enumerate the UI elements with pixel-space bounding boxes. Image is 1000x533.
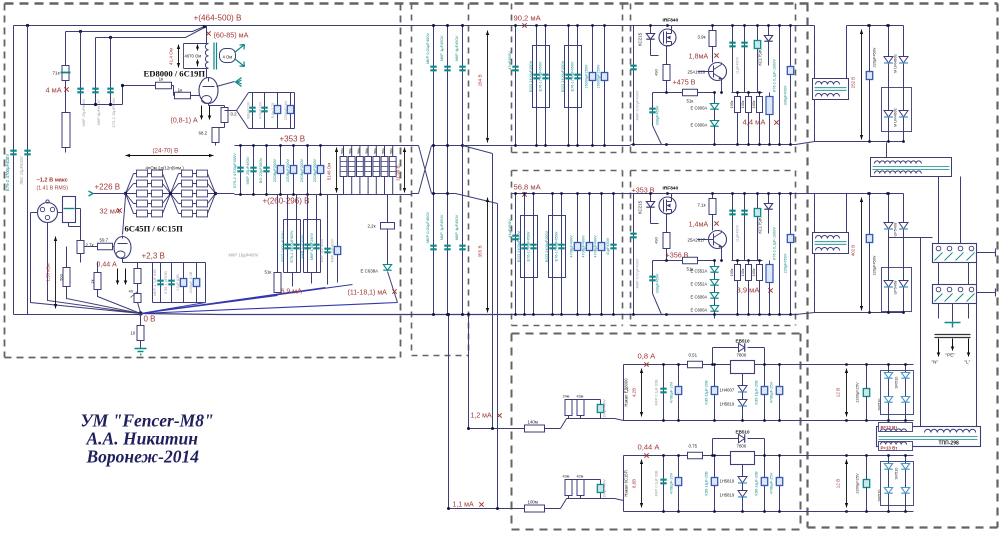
svg-text:500: 500 <box>59 273 64 280</box>
teal box cap ch1 <box>757 26 759 93</box>
cathode bypass C3 <box>277 93 279 129</box>
svg-text:2200μF 6.3В: 2200μF 6.3В <box>189 271 193 293</box>
svg-text:КЭ5-11μF-20В: КЭ5-11μF-20В <box>755 380 759 405</box>
svg-text:140м: 140м <box>528 420 538 425</box>
svg-text:УМ "Fencer-M8": УМ "Fencer-M8" <box>81 411 214 431</box>
resistor R 7.1к ch2 <box>712 194 714 199</box>
svg-text:470ВμF-25V: 470ВμF-25V <box>770 381 774 403</box>
svg-text:56к: 56к <box>356 148 361 154</box>
diode pair UF5408 lower <box>884 281 893 288</box>
svg-text:1,2 мА: 1,2 мА <box>471 413 492 420</box>
capacitor C left2 <box>24 151 30 155</box>
svg-text:4 мА: 4 мА <box>46 86 62 95</box>
svg-text:220ВμF200V: 220ВμF200V <box>272 158 277 182</box>
wire: grid2 to tube <box>191 95 200 97</box>
right caps ch1 <box>779 26 781 145</box>
ch1 series cap frame 1 <box>533 46 550 108</box>
capacitor МКР 0,01μF400V bottom <box>430 246 436 250</box>
svg-text:КЭ5-11μF-20В: КЭ5-11μF-20В <box>755 471 759 496</box>
resistor R 2,2к <box>387 195 389 265</box>
svg-text:МКР 1μF400V: МКР 1μF400V <box>320 238 324 262</box>
wire: heater return 2 <box>448 315 450 509</box>
svg-text:+2,3 В: +2,3 В <box>142 252 165 261</box>
svg-text:1Н5819: 1Н5819 <box>720 479 735 484</box>
heater dots <box>845 454 848 457</box>
svg-text:SR510: SR510 <box>894 376 899 389</box>
reg junction dots ch1 <box>649 24 652 27</box>
svg-text:ЛВС 10μF600V: ЛВС 10μF600V <box>19 156 24 185</box>
protection diode 1Н5819 Накал 6С15П <box>738 477 747 484</box>
svg-text:"РЕ": "РЕ" <box>946 353 956 358</box>
resistor R cathode 1 <box>134 269 141 284</box>
wire: heater feed 2 diagonal <box>456 194 498 509</box>
svg-text:1,8мА: 1,8мА <box>689 52 709 61</box>
primary winding P=13W lower <box>879 442 913 451</box>
svg-text:10: 10 <box>131 331 136 336</box>
svg-text:К76-2 0,1μF-1000V: К76-2 0,1μF-1000V <box>773 227 777 260</box>
svg-text:4,4 мА: 4,4 мА <box>743 118 767 127</box>
svg-text:МКР 0,1μF 63В: МКР 0,1μF 63В <box>655 470 659 496</box>
svg-text:470ВμF400V: 470ВμF400V <box>570 235 574 258</box>
ch1 series cap frame 2 <box>565 46 582 108</box>
svg-text:1Н5819: 1Н5819 <box>720 493 735 498</box>
svg-text:7806: 7806 <box>737 353 747 358</box>
wire: reg left column ch1 <box>633 26 635 145</box>
wire: B+ top rail <box>14 25 205 27</box>
svg-text:IRF840: IRF840 <box>663 18 679 24</box>
svg-text:100к: 100к <box>730 268 734 276</box>
svg-text:11μF450V: 11μF450V <box>736 224 740 242</box>
wire: R500 leg <box>67 247 141 314</box>
wire: heater bottom bus Накал 6С15П <box>624 511 805 513</box>
resistor R 71к trimmer <box>62 66 69 81</box>
frame: left block dashed box <box>5 4 401 358</box>
svg-text:5,6к 0.75: 5,6к 0.75 <box>271 103 275 118</box>
heater diode col a <box>888 456 890 512</box>
wire: grid bypass column 2 <box>95 38 97 105</box>
mains transformer <box>813 233 849 254</box>
svg-text:Накал ЕД8000: Накал ЕД8000 <box>624 378 629 407</box>
svg-text:100μF400V: 100μF400V <box>603 479 607 498</box>
svg-text:47μF450V: 47μF450V <box>507 51 512 70</box>
capacitor К73-2 ch2 <box>769 261 771 315</box>
resistor R 59.7 <box>98 243 113 250</box>
dimension: (24-70) В <box>126 155 214 157</box>
svg-text:МКР 4,7μF 63В: МКР 4,7μF 63В <box>153 269 157 296</box>
svg-text:220μF450V: 220μF450V <box>873 47 877 67</box>
svg-text:2,2к: 2,2к <box>368 224 376 229</box>
mid strip junctions <box>432 144 435 147</box>
svg-text:МКР 4μF450V: МКР 4μF450V <box>454 214 459 240</box>
wire: ch1 bottom bus <box>469 145 631 147</box>
heater cap 2200μF25V <box>863 389 869 397</box>
svg-text:А.А. Никитин: А.А. Никитин <box>86 429 199 449</box>
svg-text:490: 490 <box>654 68 659 75</box>
mains transformer <box>813 79 849 100</box>
node: 0V star <box>138 311 142 315</box>
svg-text:100к: 100к <box>741 100 745 108</box>
wire: ch2 bottom bus <box>463 314 631 316</box>
svg-text:56к: 56к <box>364 148 369 154</box>
wire: reg top bus ch2 <box>631 193 796 195</box>
wire: cathode node to bypass bank <box>225 93 249 129</box>
wire: R2к leg <box>98 262 141 314</box>
dimension: 4070 Ом <box>197 45 199 67</box>
heater dim <box>846 369 848 417</box>
rect dots <box>868 24 871 27</box>
wire: emitter/base ch1 <box>698 63 722 93</box>
svg-text:КЭ5-11μF-20В: КЭ5-11μF-20В <box>705 380 709 405</box>
svg-text:12 В: 12 В <box>836 388 841 397</box>
svg-text:МКР 16дФ400V: МКР 16дФ400V <box>229 253 259 258</box>
svg-text:(60-85) мА: (60-85) мА <box>214 31 249 40</box>
svg-text:355 В: 355 В <box>478 245 483 257</box>
zener VD КС215 ch1 <box>650 26 652 34</box>
zener КС175Ж ch2 <box>768 194 770 204</box>
svg-text:490: 490 <box>654 236 659 243</box>
protection diode 1Н4007 Накал ЕД8000 <box>738 386 747 393</box>
resistor R 1к grid1 <box>156 82 172 89</box>
svg-text:6,8В: 6,8В <box>632 479 637 488</box>
ch2 cap 470ВμF400V a <box>577 194 579 315</box>
svg-text:42м: 42м <box>577 475 584 479</box>
arrow mains N <box>938 339 940 357</box>
svg-text:11μF450V: 11μF450V <box>736 56 740 74</box>
extra caps on +260 bus <box>327 195 329 285</box>
heater diode col b <box>905 365 907 421</box>
cathode bypass C2 <box>264 93 266 129</box>
capacitor 330μF450V ch2 <box>653 261 667 315</box>
frame: middle strip dashed box <box>412 4 469 356</box>
tube U2 6С45П envelope <box>114 237 131 259</box>
resistor trio 100к ch2 <box>737 261 739 315</box>
heater diode pair 2 <box>884 397 892 403</box>
dimension heater V Накал 6С15П <box>641 460 643 508</box>
MOSFET Q ch2 <box>659 197 676 214</box>
svg-text:100к: 100к <box>730 100 734 108</box>
heater cap 2200μF25V <box>863 480 869 488</box>
capacitor МКР 4μF450V bottom <box>459 246 465 250</box>
svg-text:Е76-2 4700μF400V: Е76-2 4700μF400V <box>5 154 10 191</box>
svg-text:M UR460Е: M UR460Е <box>893 108 898 127</box>
wire: heater rect buses <box>801 365 914 421</box>
capacitor bank B+ (C10-C16) <box>240 146 242 195</box>
svg-text:КС175Ж: КС175Ж <box>758 217 763 233</box>
frame: right rectifier dashed box <box>808 4 998 528</box>
heater out cap 2 Накал ЕД8000 <box>764 365 766 421</box>
heater diode pair 1 <box>884 464 892 470</box>
wire: ch1 top bus <box>512 25 631 27</box>
diode pair M UR460Е lower <box>884 111 893 118</box>
svg-text:470ВμF400V: 470ВμF400V <box>594 235 598 258</box>
ch1 frame1 caps <box>536 26 538 146</box>
ch2 series cap frame 2 <box>549 216 566 278</box>
wire: diode to bus Накал ЕД8000 <box>743 397 758 421</box>
top caps ch2 <box>732 194 734 261</box>
wire: diode to bus Накал 6С15П <box>743 488 758 512</box>
svg-text:1Н5819: 1Н5819 <box>720 402 735 407</box>
ch1 bank dots <box>514 24 517 27</box>
resistor R 490 ch1 <box>663 65 670 81</box>
frame: PSU dashed box <box>512 334 801 530</box>
wire: heater left column Накал 6С15П <box>623 456 625 512</box>
ch2 frame2 caps <box>552 194 554 315</box>
capacitor 330μF450V ch1 <box>653 93 667 145</box>
ground symbol <box>135 349 147 355</box>
resistor 140м input Накал ЕД8000 <box>525 425 545 432</box>
cap column 47μF450V <box>515 26 517 146</box>
ch2 cap 41μF450V d <box>613 194 615 315</box>
svg-text:100μF400V: 100μF400V <box>603 399 607 418</box>
svg-text:71к: 71к <box>53 71 61 76</box>
svg-text:ECO 2400μF200V: ECO 2400μF200V <box>517 230 521 262</box>
wire: between diodes Накал ЕД8000 <box>742 392 744 400</box>
svg-text:16000μF250V: 16000μF250V <box>597 64 601 88</box>
grid stopper antenna <box>217 82 235 87</box>
svg-text:M UR460Е: M UR460Е <box>893 54 898 73</box>
svg-text:56к: 56к <box>381 148 386 154</box>
svg-text:3.9к: 3.9к <box>698 35 706 40</box>
node: B+ apex <box>203 25 206 28</box>
arrow cathode current 1 <box>201 106 203 120</box>
transistor Q 25А1626 <box>709 63 727 81</box>
svg-text:BG 22μF350V: BG 22μF350V <box>258 157 263 183</box>
resistor R 51к anchor <box>277 195 279 273</box>
wire: heater rect buses <box>801 456 914 512</box>
svg-text:51к: 51к <box>687 99 694 104</box>
svg-text:4,2В: 4,2В <box>632 388 637 397</box>
svg-text:56к: 56к <box>389 148 394 154</box>
svg-text:Р=13 Вт: Р=13 Вт <box>881 425 899 430</box>
heater diode pair 1 <box>884 373 892 379</box>
svg-text:0.51: 0.51 <box>689 353 698 358</box>
svg-text:К73-2 10μF600V: К73-2 10μF600V <box>111 97 116 127</box>
svg-text:0.75: 0.75 <box>689 444 698 449</box>
tube U1 ED8000/6C19П envelope <box>199 78 218 104</box>
input caps Накал ЕД8000 <box>568 400 570 419</box>
svg-text:2200μF16V: 2200μF16V <box>284 100 288 120</box>
wire: left cap column 2 <box>27 26 29 315</box>
ch2 series cap frame 1 <box>521 216 538 278</box>
svg-text:ЕВ510: ЕВ510 <box>736 339 750 344</box>
rect diode column b <box>903 26 905 142</box>
resistor R 490 ch2 <box>663 233 670 249</box>
heater frame <box>881 371 914 415</box>
svg-text:+353 В: +353 В <box>280 135 306 144</box>
svg-text:Е76-2 3400μF400V: Е76-2 3400μF400V <box>290 230 294 263</box>
svg-text:Е76-1740μF450V: Е76-1740μF450V <box>527 231 531 261</box>
svg-text:МКР 0,01μF400V: МКР 0,01μF400V <box>425 33 430 65</box>
wire: grid to tube <box>113 246 115 248</box>
wire: mid top bus <box>205 25 512 27</box>
capacitor grid bypass 2 <box>92 89 98 93</box>
svg-text:+226 В: +226 В <box>95 183 121 192</box>
svg-text:6С45П / 6С15П: 6С45П / 6С15П <box>125 224 184 234</box>
svg-text:0.2: 0.2 <box>231 112 238 117</box>
interstage transformer T2 sections <box>126 174 137 194</box>
svg-text:24м: 24м <box>563 395 570 399</box>
wire: reg out Накал 6С15П <box>742 465 744 477</box>
ch2 bank dots <box>514 192 517 195</box>
MOSFET Q ch1 <box>659 29 676 46</box>
heater cap 470 Накал ЕД8000 <box>678 365 680 421</box>
wire: interstage left node to driver anode <box>123 194 126 235</box>
svg-text:SR510: SR510 <box>894 467 899 480</box>
dimension: 5148 Ом <box>336 148 338 193</box>
svg-text:МКР 1μF450V: МКР 1μF450V <box>439 35 444 61</box>
svg-text:ECO 2400μF200V: ECO 2400μF200V <box>545 230 549 262</box>
svg-text:40: 40 <box>129 289 134 294</box>
svg-text:1Н4007: 1Н4007 <box>720 388 735 393</box>
svg-text:МКР 25μF450V: МКР 25μF450V <box>245 156 250 184</box>
wire: XLR shield <box>31 213 141 314</box>
wire: bias divider column <box>65 32 67 153</box>
frame: ch2 regulator dashed box <box>631 171 796 326</box>
top caps ch1 <box>732 26 734 93</box>
svg-text:470ВμF-16V: 470ВμF-16V <box>670 381 674 403</box>
switch block K1 upper <box>933 244 977 263</box>
bridge side rect <box>882 268 912 312</box>
zener КС175Ж ch1 <box>768 26 770 36</box>
wire: between switch blocks <box>939 263 969 285</box>
wire: mains outputs <box>939 304 969 322</box>
svg-text:Е С600А: Е С600А <box>691 295 708 300</box>
resistor R 2.7к <box>77 241 84 254</box>
junction dots B+ bank <box>239 144 242 147</box>
wire: cathode down <box>209 104 225 108</box>
wire: screen rail 2 <box>66 27 205 32</box>
svg-text:56к: 56к <box>340 148 345 154</box>
driver cathode capacitors <box>160 263 162 303</box>
svg-text:ECO 2400μF200V: ECO 2400μF200V <box>281 231 285 262</box>
ch1 frame2 caps <box>568 26 570 146</box>
svg-text:59.7: 59.7 <box>100 238 109 243</box>
svg-text:43м: 43м <box>577 395 584 399</box>
capacitor left ch2 <box>630 234 636 238</box>
svg-text:31-99 В-: 31-99 В- <box>396 164 401 181</box>
wire: XLR to input box <box>58 212 63 214</box>
frame: ch1 capacitor-bank dashed box <box>512 4 623 153</box>
wire: mid cap column 1 <box>433 26 435 315</box>
svg-text:ЕВ510: ЕВ510 <box>736 430 750 435</box>
svg-text:470μF16V: 470μF16V <box>259 101 263 119</box>
svg-text:МКР 0,47μF400V: МКР 0,47μF400V <box>636 258 640 288</box>
wire: ground leg <box>140 314 142 349</box>
wire: ch1 bus into right box <box>796 26 904 145</box>
heater psu dots Накал 6С15П <box>662 454 665 457</box>
svg-text:41,4 Ом: 41,4 Ом <box>169 48 174 65</box>
svg-text:43м: 43м <box>563 475 570 479</box>
heater out cap 2 Накал 6С15П <box>764 456 766 512</box>
svg-text:(1.41 В RMS): (1.41 В RMS) <box>37 186 69 192</box>
rect dots <box>868 192 871 195</box>
capacitor C left1 <box>10 151 16 155</box>
svg-text:680μF16V: 680μF16V <box>247 101 251 119</box>
zener VD КС215 ch2 <box>650 194 652 202</box>
capacitor МКР 1μF450V bottom <box>444 246 450 250</box>
heater cap 470 Накал 6С15П <box>678 456 680 512</box>
teal box cap ch2 <box>757 194 759 261</box>
svg-text:4 Ом: 4 Ом <box>223 55 233 60</box>
svg-text:330μF450V: 330μF450V <box>656 273 660 293</box>
svg-text:МКР 8μF600V: МКР 8μF600V <box>96 99 101 125</box>
diode pair M UR460Е upper <box>884 57 893 64</box>
mains terminal bar <box>935 335 971 338</box>
dimension: 1,55 кОм <box>55 237 57 309</box>
wire: heater top bus Накал 6С15П <box>624 455 805 457</box>
svg-text:Е С600А: Е С600А <box>691 123 708 128</box>
input attenuator box <box>63 197 76 223</box>
lower cap bank frames <box>284 220 301 273</box>
svg-text:0 В: 0 В <box>144 315 156 324</box>
input arrow to interstage <box>89 191 94 196</box>
svg-text:UF5408: UF5408 <box>893 281 898 295</box>
driver cathode caps frame <box>153 263 206 303</box>
svg-text:330μF450V: 330μF450V <box>656 105 660 125</box>
zener string ch1 <box>710 104 718 110</box>
svg-text:402 В: 402 В <box>851 245 856 257</box>
svg-text:220μF450V: 220μF450V <box>784 253 788 273</box>
capacitor 220μF450V <box>869 26 871 142</box>
ground PE symbol <box>945 323 961 328</box>
wire: ch2 top bus <box>512 193 631 195</box>
arrow mains PE <box>952 339 954 351</box>
dimension voltage <box>861 198 863 311</box>
svg-text:ED8000 / 6С19П: ED8000 / 6С19П <box>144 69 206 79</box>
svg-text:+(464-500) В: +(464-500) В <box>194 14 243 23</box>
rect diode column a <box>888 194 890 313</box>
svg-text:4070 Ом: 4070 Ом <box>185 54 202 59</box>
svg-text:МКР 1,8μF250V: МКР 1,8μF250V <box>310 233 314 260</box>
lower cap bank capacitors <box>287 220 289 273</box>
svg-text:ECO 2400μF200V: ECO 2400μF200V <box>529 60 533 92</box>
wire: output node ch2 <box>667 249 683 261</box>
wire: left cap column 1 <box>13 26 15 315</box>
output transformer T1 primary <box>205 26 208 78</box>
svg-text:2200μF25V: 2200μF25V <box>855 382 860 403</box>
heater diode col a <box>888 365 890 421</box>
svg-text:КЭ5-11μF-20В: КЭ5-11μF-20В <box>705 471 709 496</box>
wire: grid bypass column 1 <box>80 32 82 105</box>
mid mains transformer T3 <box>871 158 952 177</box>
svg-text:470ВμF-16V: 470ВμF-16V <box>670 472 674 494</box>
heater diode pair 2 <box>884 488 892 494</box>
frame: ch1 regulator dashed box <box>631 4 796 153</box>
wire: zener chain feed ch1 <box>698 93 715 105</box>
wire: feed horiz Накал ЕД8000 <box>469 419 624 429</box>
svg-text:(24-70) В: (24-70) В <box>153 148 179 155</box>
resistor R ground 10 <box>137 326 144 341</box>
svg-text:252 В: 252 В <box>851 77 856 89</box>
heater dim <box>846 460 848 508</box>
protection diode 1Н5819 Накал ЕД8000 <box>738 400 747 407</box>
switch block K1 lower <box>933 285 977 304</box>
svg-text:ТПП-298: ТПП-298 <box>939 441 959 447</box>
svg-text:КС215: КС215 <box>638 200 643 214</box>
svg-text:12 В: 12 В <box>836 479 841 488</box>
zener VD КС638А <box>383 265 391 271</box>
resistor 0.75 Накал 6С15П <box>688 452 703 459</box>
svg-text:100к: 100к <box>752 100 756 108</box>
wire: T3 to ch1 rect <box>886 143 888 158</box>
diode pair UF5408 upper <box>884 223 893 230</box>
heater out cap 3 Накал 6С15П <box>779 456 781 512</box>
svg-text:МКР 1μF400V: МКР 1μF400V <box>301 234 305 258</box>
resistor R 68.2 <box>212 128 219 143</box>
svg-text:0,44 А: 0,44 А <box>638 443 661 452</box>
wire: reg top bus ch1 <box>631 25 796 27</box>
heater diode col b <box>905 456 907 512</box>
